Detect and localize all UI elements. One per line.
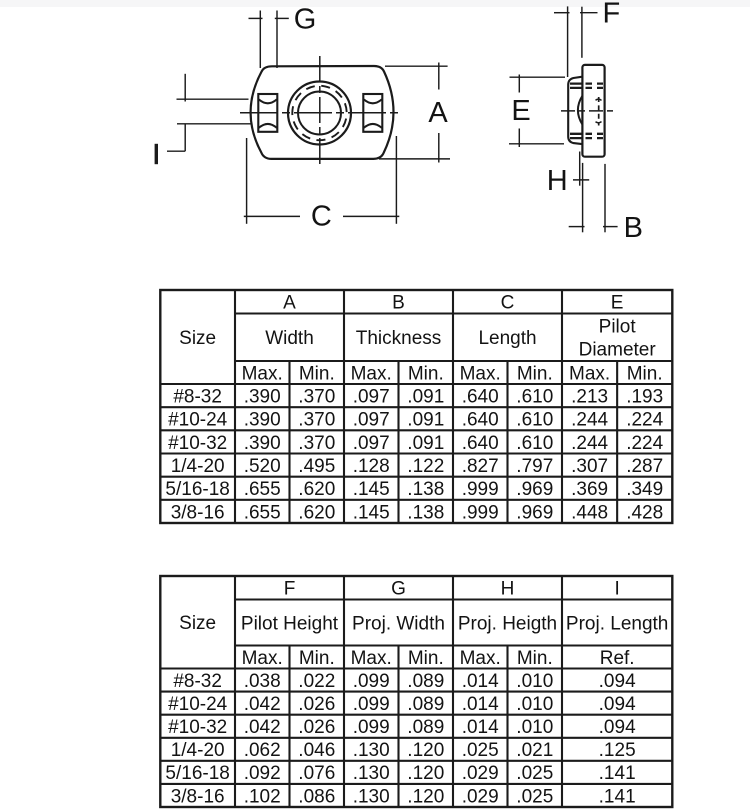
svg-text:.620: .620 [298,479,335,500]
svg-text:.099: .099 [353,717,390,738]
thread circle dashed [287,81,352,146]
svg-text:.125: .125 [599,740,636,761]
dimension F [554,0,620,77]
svg-text:H: H [547,165,568,197]
svg-text:.089: .089 [407,671,444,692]
table 1 dimensions A-E [160,290,672,523]
svg-text:.120: .120 [407,786,444,807]
svg-text:.120: .120 [407,763,444,784]
svg-text:.097: .097 [353,433,390,454]
svg-text:.390: .390 [244,387,281,408]
svg-text:C: C [311,200,332,232]
svg-text:.091: .091 [407,387,444,408]
svg-text:.042: .042 [244,717,281,738]
svg-text:.010: .010 [516,717,553,738]
svg-text:.097: .097 [353,410,390,431]
svg-text:Max.: Max. [460,363,501,384]
svg-text:#10-24: #10-24 [168,410,228,431]
svg-text:3/8-16: 3/8-16 [171,502,225,523]
svg-text:E: E [511,95,530,127]
svg-text:.370: .370 [298,410,335,431]
svg-text:.428: .428 [626,502,663,523]
svg-text:.138: .138 [407,479,444,500]
svg-text:.029: .029 [462,786,499,807]
svg-text:.224: .224 [626,410,663,431]
svg-text:.099: .099 [353,671,390,692]
svg-text:.999: .999 [462,502,499,523]
hidden projection lines bottom [570,133,604,135]
dimension A [379,63,450,163]
svg-text:.369: .369 [571,479,608,500]
svg-text:.092: .092 [244,763,281,784]
svg-text:A: A [283,293,296,314]
svg-text:Min.: Min. [517,363,553,384]
svg-text:G: G [294,3,317,35]
hidden thread line [598,97,600,126]
svg-text:H: H [501,579,515,600]
svg-text:Min.: Min. [299,648,335,669]
svg-text:.089: .089 [407,717,444,738]
svg-text:.091: .091 [407,433,444,454]
svg-text:Diameter: Diameter [579,340,657,361]
svg-text:.026: .026 [298,717,335,738]
svg-text:.099: .099 [353,694,390,715]
svg-text:.094: .094 [599,694,636,715]
svg-text:C: C [501,293,515,314]
dimension C [244,136,399,232]
svg-text:.138: .138 [407,502,444,523]
svg-text:Length: Length [478,328,536,349]
svg-text:.655: .655 [244,502,281,523]
svg-text:.120: .120 [407,740,444,761]
svg-text:.042: .042 [244,694,281,715]
svg-text:.287: .287 [626,456,663,477]
svg-text:.130: .130 [353,786,390,807]
svg-text:.145: .145 [353,502,390,523]
svg-text:B: B [624,212,643,244]
svg-text:.128: .128 [353,456,390,477]
weld projection profile (side) [578,96,583,125]
svg-text:.969: .969 [516,479,553,500]
svg-text:.620: .620 [298,502,335,523]
svg-text:.390: .390 [244,410,281,431]
svg-text:Proj. Width: Proj. Width [352,613,445,634]
svg-text:.010: .010 [516,671,553,692]
svg-text:Max.: Max. [242,363,283,384]
svg-text:.026: .026 [298,694,335,715]
svg-text:I: I [615,579,620,600]
svg-text:.091: .091 [407,410,444,431]
svg-text:.046: .046 [298,740,335,761]
svg-text:Min.: Min. [517,648,553,669]
tapped hole inner circle [298,92,341,135]
svg-text:.102: .102 [244,786,281,807]
svg-text:.193: .193 [626,387,663,408]
svg-text:Max.: Max. [351,648,392,669]
svg-text:Max.: Max. [351,363,392,384]
svg-text:Proj. Heigth: Proj. Heigth [458,613,557,634]
svg-text:.038: .038 [244,671,281,692]
svg-text:.141: .141 [599,763,636,784]
table 1 dimensions A-E: grid [160,290,672,523]
svg-text:.025: .025 [462,740,499,761]
svg-text:.089: .089 [407,694,444,715]
svg-text:.448: .448 [571,502,608,523]
svg-text:A: A [428,97,448,129]
svg-text:.827: .827 [462,456,499,477]
svg-text:.130: .130 [353,740,390,761]
dimension H [547,152,589,233]
svg-text:.797: .797 [516,456,553,477]
svg-text:5/16-18: 5/16-18 [165,763,229,784]
svg-text:.610: .610 [516,387,553,408]
horizontal centerline [240,112,401,114]
svg-text:.999: .999 [462,479,499,500]
svg-text:.969: .969 [516,502,553,523]
svg-text:.610: .610 [516,433,553,454]
svg-text:.014: .014 [462,694,499,715]
table 2 dimensions F-I [160,576,672,807]
svg-text:#10-32: #10-32 [168,433,227,454]
svg-text:F: F [284,579,296,600]
svg-text:Min.: Min. [299,363,335,384]
nut body outline (side view) [582,65,604,157]
dimension I [155,74,253,164]
svg-text:Min.: Min. [627,363,663,384]
svg-text:.213: .213 [571,387,608,408]
svg-text:.655: .655 [244,479,281,500]
svg-text:.014: .014 [462,717,499,738]
svg-text:.022: .022 [298,671,335,692]
svg-text:5/16-18: 5/16-18 [165,479,229,500]
svg-text:Ref.: Ref. [600,648,635,669]
pilot boss outline [568,77,583,145]
svg-text:Pilot: Pilot [599,317,637,338]
svg-text:.145: .145 [353,479,390,500]
svg-text:Size: Size [179,328,216,349]
svg-text:Pilot Height: Pilot Height [241,613,339,634]
svg-text:.349: .349 [626,479,663,500]
svg-text:.094: .094 [599,717,636,738]
dimension E [509,75,565,148]
tapped hole outer circle [288,82,351,145]
svg-text:Min.: Min. [408,363,444,384]
svg-text:.640: .640 [462,410,499,431]
svg-text:.640: .640 [462,433,499,454]
svg-text:.062: .062 [244,740,281,761]
hidden projection lines top [570,82,604,84]
svg-text:Max.: Max. [242,648,283,669]
left weld projection [258,94,277,132]
horizontal centerline (side view) [561,110,614,112]
svg-text:.224: .224 [626,433,663,454]
svg-text:.029: .029 [462,763,499,784]
svg-text:.390: .390 [244,433,281,454]
svg-text:.610: .610 [516,410,553,431]
svg-text:1/4-20: 1/4-20 [171,456,225,477]
svg-text:.130: .130 [353,763,390,784]
svg-text:B: B [392,293,405,314]
svg-text:.021: .021 [516,740,553,761]
svg-text:.640: .640 [462,387,499,408]
svg-text:Width: Width [265,328,314,349]
svg-text:3/8-16: 3/8-16 [171,786,225,807]
svg-text:.025: .025 [516,786,553,807]
svg-text:.141: .141 [599,786,636,807]
table 2 dimensions F-I: grid [160,576,672,807]
dimension G [249,3,317,68]
svg-text:#8-32: #8-32 [173,671,222,692]
svg-text:.122: .122 [407,456,444,477]
svg-text:E: E [611,293,624,314]
vertical centerline [319,56,321,168]
svg-text:#8-32: #8-32 [173,387,222,408]
svg-text:G: G [391,579,406,600]
svg-text:.244: .244 [571,433,608,454]
svg-text:.244: .244 [571,410,608,431]
svg-text:F: F [602,0,620,29]
svg-text:Min.: Min. [408,648,444,669]
svg-text:.097: .097 [353,387,390,408]
svg-text:.086: .086 [298,786,335,807]
svg-text:Max.: Max. [460,648,501,669]
svg-text:1/4-20: 1/4-20 [171,740,225,761]
svg-text:.014: .014 [462,671,499,692]
svg-text:.307: .307 [571,456,608,477]
right weld projection [363,94,382,132]
svg-text:.076: .076 [298,763,335,784]
svg-text:.520: .520 [244,456,281,477]
svg-text:Proj. Length: Proj. Length [566,613,668,634]
svg-text:.370: .370 [298,433,335,454]
svg-text:.495: .495 [298,456,335,477]
svg-text:#10-32: #10-32 [168,717,227,738]
nut body outline (front view) [251,66,394,159]
svg-text:.370: .370 [298,387,335,408]
dimension B [569,164,643,244]
svg-text:Thickness: Thickness [356,328,442,349]
svg-text:Max.: Max. [569,363,610,384]
svg-text:Size: Size [179,613,216,634]
svg-text:.010: .010 [516,694,553,715]
svg-text:#10-24: #10-24 [168,694,228,715]
svg-text:.094: .094 [599,671,636,692]
svg-text:.025: .025 [516,763,553,784]
